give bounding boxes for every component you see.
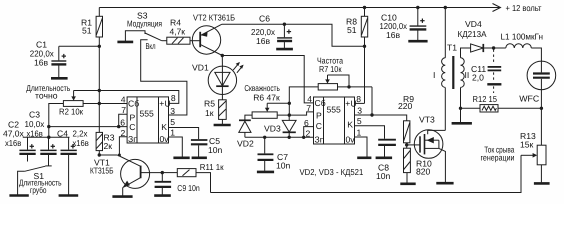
wire collector node	[99, 154, 117, 156]
wire R8 bottom to 555#2 pin8	[364, 37, 366, 103]
wire R1 bottom to node A and down to R3	[98, 37, 100, 132]
svg-text:Скважность: Скважность	[244, 83, 280, 93]
svg-text:C9 10n: C9 10n	[177, 183, 200, 193]
wire to T1 ground	[460, 108, 462, 122]
junction C6	[283, 23, 286, 26]
svg-text:P: P	[130, 112, 136, 122]
junction R3/VT1 collector	[98, 153, 101, 156]
capacitor C8	[378, 140, 396, 157]
svg-text:3: 3	[357, 106, 362, 116]
wire C1 tap	[59, 45, 100, 47]
switch S1	[18, 166, 46, 194]
wire T1 secondary bottom	[460, 88, 462, 109]
plus mark C1	[62, 54, 66, 58]
lamp WFC	[527, 61, 556, 90]
op-amp/timer U2 (555 #2) body	[314, 97, 355, 144]
ground S1	[9, 194, 28, 197]
svg-text:2к: 2к	[104, 141, 113, 151]
svg-text:КТ315Б: КТ315Б	[90, 165, 114, 175]
capacitor C6 (electrolytic)	[277, 24, 292, 48]
svg-text:4,7к: 4,7к	[170, 27, 186, 37]
wire R7 left to VD network	[289, 87, 318, 115]
potentiometer R7 Частота	[318, 75, 349, 90]
wire R13 wiper to bottom feedback wire	[211, 155, 522, 192]
junction pin6 drop	[302, 136, 305, 139]
svg-text:16в: 16в	[386, 30, 401, 40]
svg-text:5: 5	[170, 117, 175, 127]
junction VD4/C11	[492, 46, 495, 49]
svg-text:R12 15: R12 15	[473, 94, 498, 104]
resistor R1	[96, 8, 102, 38]
resistor R8	[361, 8, 367, 38]
svg-text:1: 1	[357, 127, 362, 137]
svg-text:51: 51	[347, 25, 357, 35]
capacitor C11 (dashed leads)	[487, 50, 501, 94]
svg-text:Зп: Зп	[315, 134, 325, 144]
junction pin7/pin6	[117, 125, 120, 128]
wire S3 lower contact to 555#1 pin3	[141, 40, 187, 115]
resistor R5	[219, 100, 227, 124]
diode VD3	[282, 115, 296, 137]
diode VD2	[239, 120, 251, 137]
ground R10	[400, 183, 415, 186]
svg-text:1: 1	[170, 127, 175, 137]
junction VD3 bottom	[288, 136, 291, 139]
svg-text:16в: 16в	[34, 58, 49, 68]
wire 555#2 pin8	[355, 102, 365, 104]
junction pin6 wire / R2 drop	[47, 125, 50, 128]
svg-text:51: 51	[82, 25, 92, 35]
junction R6 wiper net	[288, 102, 291, 105]
svg-text:R5: R5	[204, 98, 215, 108]
wire R7 right to 555#2 pin3	[338, 86, 373, 88]
junction R9/R10/gate	[405, 143, 408, 146]
wire S3 to R4	[162, 40, 167, 42]
switch S3 blade	[145, 33, 162, 41]
ground VT1 emitter	[112, 195, 132, 198]
wire R7 net down to pin3 node	[371, 87, 373, 115]
+12V rail arrowhead	[493, 4, 501, 12]
ground C10	[408, 40, 427, 43]
wire L1 to WFC	[531, 48, 541, 61]
wire R2 right / 555#1 pin4	[83, 103, 127, 105]
junction pin3 node	[370, 113, 373, 116]
potentiometer R13	[521, 145, 546, 182]
svg-text:точно: точно	[35, 90, 58, 100]
potentiometer R6 Скважность	[252, 103, 289, 118]
svg-text:K: K	[347, 120, 353, 130]
junction rail/R8	[363, 6, 366, 9]
junction bus/R2 drop	[47, 136, 50, 139]
wire R6 left to VD2	[245, 115, 252, 120]
plus mark C3	[51, 144, 55, 148]
capacitor C10 (electrolytic)	[410, 8, 427, 41]
wire 555#1 pin5 (K) to C5	[169, 128, 199, 140]
resistor R9	[404, 121, 410, 148]
capacitor C4	[61, 137, 77, 194]
svg-text:грубо: грубо	[30, 185, 47, 195]
svg-text:Сб: Сб	[128, 99, 139, 109]
ground R5	[214, 124, 231, 127]
+12V power rail wire	[99, 7, 500, 9]
ground 555#1 pin1	[173, 157, 189, 160]
svg-text:II: II	[465, 70, 470, 80]
svg-text:15к: 15к	[520, 140, 534, 150]
svg-text:5: 5	[357, 116, 362, 126]
wire 555#2 pin3	[355, 114, 373, 116]
transistor VT2 КТ361Б (PNP)	[192, 24, 222, 55]
ground C8	[376, 157, 393, 160]
svg-text:VD2, VD3 - КД521: VD2, VD3 - КД521	[300, 167, 364, 177]
svg-text:C: C	[129, 122, 135, 132]
svg-text:C4: C4	[57, 129, 68, 139]
LED VD1	[208, 56, 243, 100]
junction rail/T1	[444, 6, 447, 9]
svg-text:T1: T1	[447, 42, 457, 52]
svg-text:R7 10к: R7 10к	[319, 64, 342, 74]
wire R4 to VT2 base	[190, 40, 200, 42]
svg-text:x16в: x16в	[5, 138, 22, 148]
svg-text:0v: 0v	[160, 134, 170, 144]
junction node A pin8 wire	[98, 89, 101, 92]
junction VT2 collector	[221, 54, 224, 57]
svg-text:6: 6	[120, 118, 125, 128]
svg-text:Модуляция: Модуляция	[127, 18, 162, 28]
junction R2 right on node A	[98, 102, 101, 105]
wire 555#1 pin1 to ground	[169, 137, 183, 157]
svg-text:генерации: генерации	[481, 152, 515, 162]
T1 core	[452, 56, 454, 89]
wire 555#1 pin2 drop	[119, 137, 127, 155]
svg-text:555: 555	[140, 108, 155, 118]
svg-text:10,0x: 10,0x	[25, 119, 45, 129]
timing caps bus wire	[23, 136, 70, 138]
wire 555#2 pin5 to C8	[355, 126, 385, 139]
svg-text:R6 47к: R6 47к	[253, 92, 280, 102]
svg-text:L1 100мкГн: L1 100мкГн	[501, 31, 544, 41]
svg-text:3: 3	[170, 106, 175, 116]
svg-text:R2 10к: R2 10к	[59, 106, 83, 116]
junction rail/C10	[416, 6, 419, 9]
svg-text:7: 7	[306, 103, 311, 113]
svg-text:220: 220	[398, 101, 413, 111]
inductor L1	[506, 44, 532, 48]
svg-text:Сб: Сб	[315, 98, 326, 108]
svg-text:16в: 16в	[256, 36, 271, 46]
resistor R12 (zigzag)	[461, 105, 542, 112]
junction secondary/R12	[459, 107, 462, 110]
svg-text:2,0: 2,0	[472, 73, 484, 83]
wire S3 ground stub	[125, 31, 145, 42]
svg-text:С6: С6	[259, 13, 270, 23]
wire 555#1 pin2 drop junction	[118, 154, 121, 157]
svg-text:VT2 КТ361Б: VT2 КТ361Б	[193, 13, 235, 23]
transformer T1 secondary winding	[461, 58, 465, 88]
transformer T1 primary winding	[442, 58, 446, 88]
switch S3 ground	[117, 41, 133, 44]
ground C6	[276, 48, 293, 51]
ground C5	[192, 157, 207, 160]
wire node A to 555#1 pin8	[99, 91, 179, 104]
capacitor C2	[19, 137, 35, 161]
svg-text:10n: 10n	[276, 160, 291, 170]
ground C1	[51, 77, 68, 80]
op-amp/timer U1 (555 #1) body	[127, 97, 168, 143]
svg-text:VD2: VD2	[237, 138, 254, 148]
svg-text:x16в: x16в	[73, 138, 90, 148]
ground C7	[257, 171, 274, 174]
capacitor C9	[155, 173, 172, 195]
svg-text:555: 555	[327, 104, 342, 114]
plus mark C6	[287, 29, 291, 33]
resistor R10	[404, 148, 411, 183]
resistor R3	[96, 132, 102, 155]
wire 555#2 pin3 to R9	[372, 115, 407, 121]
resistor R4	[167, 37, 190, 44]
svg-text:K: K	[161, 122, 167, 132]
svg-text:x16в: x16в	[27, 129, 44, 139]
svg-text:Вкл: Вкл	[146, 41, 156, 51]
svg-text:VD3: VD3	[264, 123, 281, 133]
svg-text:КД213А: КД213А	[458, 29, 487, 39]
wire 555#2 pin1 to ground	[355, 137, 368, 157]
svg-text:8: 8	[171, 93, 176, 103]
plus mark C10	[420, 19, 424, 23]
wire T1 secondary top to VD4	[461, 48, 471, 58]
junction VT1 base / C9 / R11	[161, 171, 164, 174]
wire VT2 emitter to C6 node	[222, 24, 365, 46]
svg-text:+ 12 вольт: + 12 вольт	[506, 3, 542, 13]
junction C7	[263, 136, 266, 139]
diode VD4 КД213А	[471, 44, 506, 52]
svg-text:VT3: VT3	[419, 115, 435, 125]
svg-text:7: 7	[121, 105, 126, 115]
ground C4	[59, 194, 79, 197]
svg-text:VD4: VD4	[465, 19, 482, 29]
ground R13	[534, 182, 550, 185]
svg-text:8: 8	[356, 94, 361, 104]
capacitor C1 (electrolytic)	[51, 46, 66, 77]
svg-text:VD1: VD1	[192, 62, 209, 72]
wire 555#1 pin6 (C)	[49, 126, 127, 128]
svg-text:10n: 10n	[208, 145, 223, 155]
ground VT3 source	[436, 182, 453, 185]
svg-text:WFC: WFC	[519, 93, 539, 103]
ground 555#2 pin1	[357, 157, 371, 160]
svg-text:4: 4	[121, 94, 126, 104]
svg-text:C: C	[316, 121, 322, 131]
transistor VT3 (MOSFET)	[414, 130, 445, 183]
wire WFC bottom to R12 node	[540, 90, 542, 146]
svg-text:P: P	[316, 110, 322, 120]
wire 555#1 pin7 loop	[119, 114, 127, 126]
svg-text:R11 1к: R11 1к	[200, 162, 224, 172]
junction R8/C6 wire	[363, 45, 366, 48]
svg-text:1к: 1к	[205, 108, 214, 118]
ground C9	[154, 194, 171, 197]
wire collector to R7 net	[222, 56, 313, 103]
svg-text:I: I	[433, 70, 435, 80]
capacitor C7	[258, 137, 274, 171]
junction R6 right / pin7 wire	[288, 113, 291, 116]
junction WFC/R12/R13	[540, 107, 543, 110]
svg-text:Зп: Зп	[128, 134, 138, 144]
svg-text:0v: 0v	[346, 134, 356, 144]
capacitor C3	[40, 137, 56, 166]
wire T1 primary bottom to VT3 drain	[444, 88, 446, 131]
svg-text:10n: 10n	[376, 171, 391, 181]
svg-text:820: 820	[416, 167, 431, 177]
capacitor C5	[191, 140, 208, 157]
resistor R11	[162, 169, 196, 177]
wire R2 left down to timing bus	[49, 104, 64, 138]
svg-text:2: 2	[306, 128, 311, 138]
wire timing node (VD2-C7-VD3-pins 2,6)	[245, 136, 314, 138]
ground T1 secondary	[452, 122, 472, 125]
potentiometer R2 Длительность точно	[63, 91, 99, 107]
wire R11 to feedback line	[196, 173, 211, 193]
wire rail to T1 primary	[444, 8, 446, 58]
wire 555#2 pin6 loop	[304, 127, 314, 138]
junction R7 wiper	[347, 85, 350, 88]
wire R6 right to 555#2 pin7	[277, 112, 313, 115]
junction C1/R1	[98, 45, 101, 48]
plus mark C4	[71, 144, 75, 148]
transistor VT1 КТ315Б (NPN, mirrored)	[117, 155, 162, 196]
wire gate VT3	[407, 144, 420, 146]
plus mark C2	[30, 144, 34, 148]
